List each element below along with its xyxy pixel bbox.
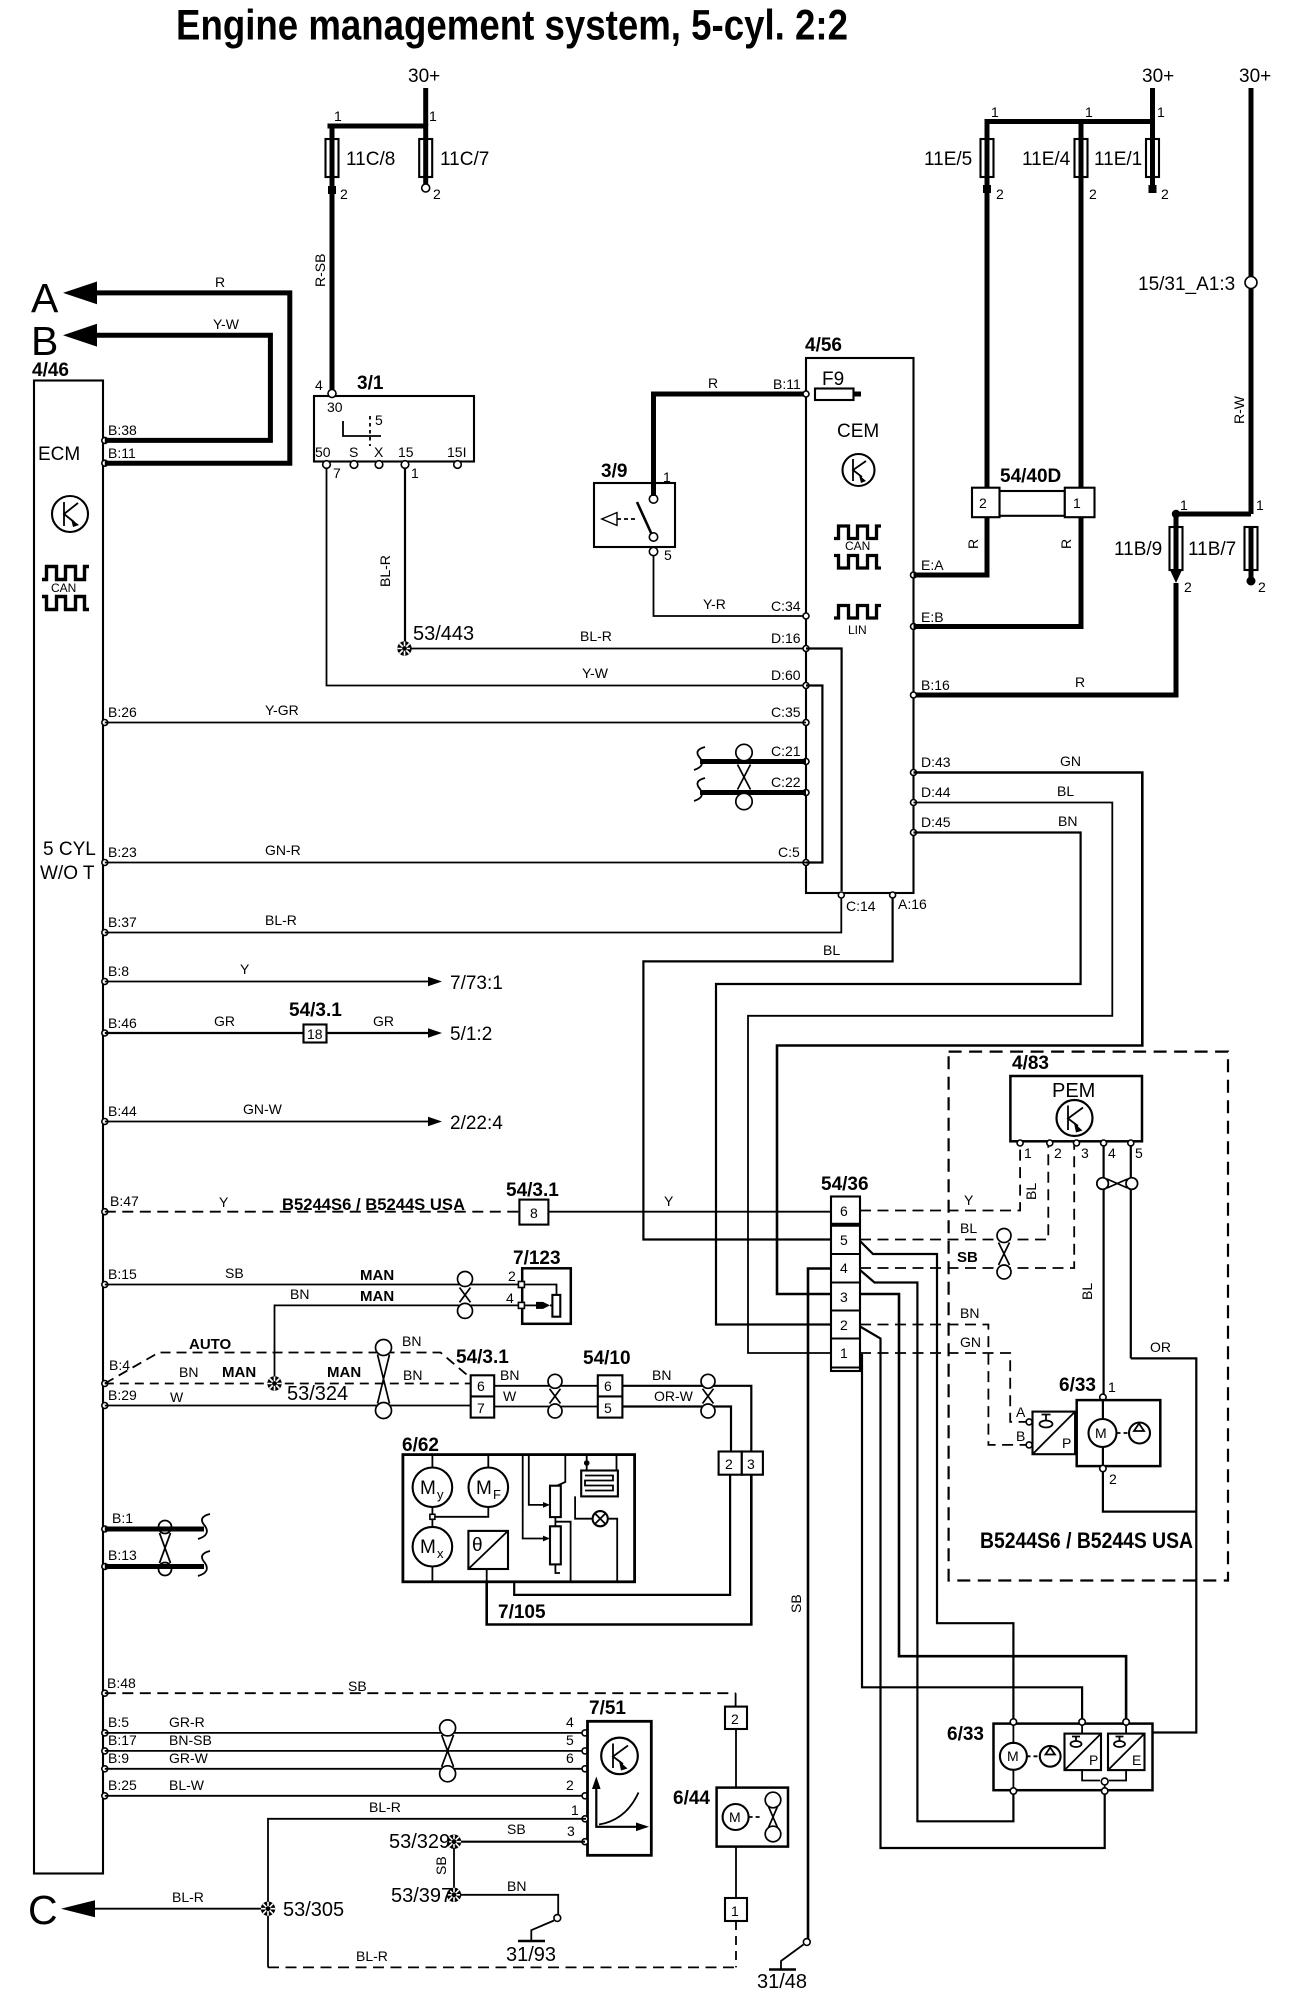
svg-text:4/56: 4/56	[805, 335, 842, 356]
twisted pair right of 54/10	[701, 1374, 715, 1418]
fuse 11E/5	[924, 139, 1004, 202]
svg-text:B5244S6 / B5244S USA: B5244S6 / B5244S USA	[980, 1528, 1193, 1553]
splice 53/397	[391, 1885, 461, 1907]
svg-text:B:9: B:9	[108, 1750, 129, 1766]
svg-text:53/443: 53/443	[413, 623, 474, 645]
power feed 30+ (left)	[330, 66, 440, 139]
svg-text:1: 1	[1157, 104, 1165, 120]
svg-text:7/105: 7/105	[498, 1602, 546, 1623]
svg-text:B:17: B:17	[108, 1732, 137, 1748]
wire R-SB from 11C/8 to 3/1 pin 4	[312, 190, 332, 392]
fuse F9	[708, 369, 861, 400]
svg-text:θ: θ	[472, 1535, 483, 1556]
svg-text:SB: SB	[507, 1821, 526, 1837]
radiator fan 6/44	[673, 1788, 788, 1847]
svg-text:PEM: PEM	[1052, 1080, 1095, 1102]
svg-text:53/397: 53/397	[391, 1885, 452, 1907]
svg-text:B:29: B:29	[108, 1387, 137, 1403]
wire C:22 stub with break	[694, 778, 806, 801]
power feed 30+ (right)	[1239, 66, 1271, 277]
wire BN from 7/123 pin 4 to splice 53/324	[275, 1286, 519, 1378]
svg-text:MAN: MAN	[360, 1267, 394, 1284]
pressure sensor with pin A/B (6/33)	[1016, 1404, 1075, 1454]
svg-text:1: 1	[411, 465, 419, 481]
svg-text:CEM: CEM	[837, 421, 879, 442]
twisted pair between 54/3.1 and 54/10	[548, 1374, 562, 1418]
svg-text:BL: BL	[823, 942, 840, 958]
svg-text:7/123: 7/123	[513, 1248, 561, 1269]
pump module 6/33 (upper, in-tank)	[1059, 1375, 1160, 1487]
fuse 11E/4	[1022, 122, 1097, 203]
svg-text:E: E	[1132, 1752, 1141, 1768]
CEM CAN symbol	[834, 526, 881, 568]
svg-text:53/305: 53/305	[283, 1899, 344, 1921]
wire SB between splices	[433, 1848, 454, 1889]
svg-text:3: 3	[840, 1289, 848, 1305]
svg-text:2: 2	[566, 1777, 574, 1793]
svg-text:MAN: MAN	[222, 1364, 256, 1381]
svg-text:C:22: C:22	[771, 774, 801, 790]
wire 6/33 pin 2 loop to OR wire	[1103, 1471, 1196, 1512]
splice 53/305	[261, 1899, 344, 1921]
dashed wire Y from 54/36 pin 6 to PEM pin 1	[860, 1145, 1020, 1211]
svg-text:53/329: 53/329	[389, 1831, 450, 1853]
connector pins 2 and 3	[719, 1452, 763, 1475]
dashed wire GN from 54/36 pin 1 to 6/33 pin A	[860, 1334, 1026, 1422]
ECM pin B:46 wire GR through 54/3.1 pin 18 to 5/1:2	[102, 1000, 492, 1045]
svg-text:B:47: B:47	[110, 1193, 139, 1209]
svg-text:1: 1	[1180, 497, 1188, 513]
svg-text:GN: GN	[1060, 753, 1081, 769]
svg-text:C:34: C:34	[771, 598, 801, 614]
svg-text:BL-R: BL-R	[265, 912, 297, 928]
svg-text:1: 1	[840, 1345, 848, 1361]
wire C:21 stub with break	[694, 747, 806, 770]
svg-text:2: 2	[725, 1456, 733, 1472]
dashed variant box B5244S6 (upper)	[949, 1052, 1228, 1581]
fuse 11C/8	[326, 126, 396, 202]
ECM pin B:1 stub with break	[102, 1510, 210, 1539]
instrument module 7/51	[588, 1698, 652, 1855]
svg-text:B:11: B:11	[108, 445, 136, 461]
svg-text:2: 2	[433, 186, 441, 202]
svg-text:BN: BN	[960, 1305, 979, 1321]
svg-text:54/40D: 54/40D	[1000, 466, 1061, 487]
svg-text:F: F	[493, 1487, 501, 1502]
svg-text:Y: Y	[964, 1192, 974, 1208]
CEM pin E:A	[911, 557, 945, 578]
svg-text:4/83: 4/83	[1012, 1053, 1049, 1074]
svg-text:GN-R: GN-R	[265, 842, 301, 858]
svg-text:30+: 30+	[1239, 66, 1271, 87]
wire BL from D:44 to 54/36 pin 1	[748, 783, 1112, 1353]
svg-text:2: 2	[979, 495, 987, 511]
ignition switch 3/1	[314, 373, 474, 481]
wire R from 11B/9 to CEM B:16	[914, 583, 1177, 695]
svg-text:1: 1	[663, 469, 671, 485]
svg-text:BN: BN	[402, 1333, 421, 1349]
svg-text:54/36: 54/36	[821, 1174, 869, 1195]
svg-text:1: 1	[731, 1903, 739, 1919]
svg-text:F9: F9	[822, 369, 844, 390]
ECM CAN symbol	[42, 567, 89, 610]
svg-text:3/1: 3/1	[357, 373, 384, 394]
ECM pin B:47 dashed wire Y to 54/3.1 pin 8	[102, 1180, 559, 1225]
ECM pin B:8 wire Y to 7/73:1	[102, 961, 503, 994]
svg-text:15/31_A1:3: 15/31_A1:3	[1138, 274, 1235, 295]
lamp	[575, 1496, 617, 1581]
svg-text:MAN: MAN	[360, 1288, 394, 1305]
svg-text:4: 4	[566, 1714, 574, 1730]
svg-text:2: 2	[1258, 579, 1266, 595]
svg-text:A: A	[31, 275, 59, 321]
svg-text:BL-R: BL-R	[356, 1948, 388, 1964]
svg-text:y: y	[437, 1487, 444, 1502]
wire CEM internal D:60 to C:5	[806, 686, 822, 863]
ECM pin B:26 wire Y-GR to C:35	[102, 702, 806, 726]
svg-text:GN: GN	[960, 1334, 981, 1350]
pressure sensor P (lower 6/33)	[1065, 1725, 1102, 1781]
wire Y-R 3/9 pin 5 to CEM C:34	[654, 555, 807, 616]
fuel pump/sender unit 6/62	[402, 1435, 635, 1582]
svg-text:1: 1	[1108, 1379, 1116, 1395]
svg-text:GR: GR	[214, 1013, 235, 1029]
svg-text:30+: 30+	[1142, 66, 1174, 87]
svg-text:2: 2	[1089, 186, 1097, 202]
CEM pin D:16	[771, 630, 809, 652]
svg-text:CAN: CAN	[845, 539, 870, 553]
pump assembly 6/33 (lower)	[947, 1719, 1153, 1794]
svg-text:3: 3	[747, 1456, 755, 1472]
svg-text:B5244S6 / B5244S USA: B5244S6 / B5244S USA	[282, 1195, 465, 1214]
dashed wire BL-R bottom	[268, 1948, 736, 1967]
svg-text:M: M	[729, 1809, 741, 1825]
svg-text:C:5: C:5	[778, 844, 800, 860]
CEM pin C:14	[838, 892, 875, 914]
svg-text:5: 5	[375, 412, 383, 428]
wires 6/62 to 7/105 label leader	[486, 1569, 488, 1582]
CEM pin D:44	[911, 784, 951, 806]
svg-text:D:16: D:16	[771, 630, 801, 646]
svg-text:A: A	[1016, 1404, 1026, 1420]
twisted pair before 7/123	[458, 1272, 473, 1319]
svg-text:Y-W: Y-W	[213, 316, 240, 332]
CEM pin D:43	[911, 754, 951, 776]
svg-text:SB: SB	[957, 1249, 978, 1266]
connector 54/36	[821, 1174, 869, 1371]
svg-text:30: 30	[327, 399, 343, 415]
svg-text:C:35: C:35	[771, 704, 801, 720]
svg-text:D:60: D:60	[771, 667, 801, 683]
twisted pair C:21/C:22	[736, 744, 752, 809]
svg-text:1: 1	[1085, 104, 1093, 120]
svg-text:4: 4	[506, 1290, 514, 1306]
wire thick from 54/36 pin 3 to lower 6/33 E	[860, 1294, 1126, 1719]
svg-text:4: 4	[315, 377, 323, 393]
svg-text:BL: BL	[960, 1220, 977, 1236]
heater element	[581, 1455, 618, 1497]
wire from PEM pin 5 down	[1130, 1145, 1132, 1358]
CEM LIN symbol	[834, 606, 881, 638]
svg-text:5: 5	[664, 547, 672, 563]
wire E:A to 11E/5	[914, 193, 988, 575]
wire bus to fuses 11C	[330, 126, 426, 139]
svg-text:54/3.1: 54/3.1	[506, 1180, 559, 1201]
svg-text:54/3.1: 54/3.1	[289, 1000, 342, 1021]
ground switch 31/93	[506, 1915, 561, 1966]
CEM key symbol	[843, 454, 875, 486]
svg-text:6: 6	[840, 1203, 848, 1219]
ECM pin B:25 wire BL-W to 7/51 pin 2	[102, 1777, 588, 1799]
svg-text:B:16: B:16	[921, 677, 950, 693]
arrow B	[31, 318, 97, 364]
svg-text:5: 5	[840, 1232, 848, 1248]
svg-text:BN: BN	[290, 1286, 309, 1302]
wire bus 11E	[987, 122, 1153, 140]
svg-text:GR-R: GR-R	[169, 1714, 205, 1730]
svg-text:BL: BL	[1023, 1183, 1039, 1200]
svg-text:B:44: B:44	[108, 1103, 137, 1119]
motor MF	[469, 1455, 509, 1508]
ECM pin B:23 wire GN-R to C:5	[102, 842, 806, 866]
wire BL-R splice to CEM D:16	[410, 628, 806, 649]
motor Mx	[413, 1527, 453, 1567]
svg-text:E:B: E:B	[921, 609, 944, 625]
ECM pin B:48 dashed wire SB to 6/44	[102, 1675, 736, 1707]
svg-text:R-SB: R-SB	[312, 254, 328, 287]
connector pin 2 above 6/44	[725, 1707, 747, 1788]
svg-text:11B/7: 11B/7	[1188, 539, 1236, 560]
wire SB from splice 53/329 to 7/51 pin 3	[460, 1821, 588, 1845]
svg-text:Engine management system, 5-cy: Engine management system, 5-cyl. 2:2	[176, 2, 848, 50]
svg-text:3: 3	[1081, 1145, 1089, 1161]
wire from 54/36 pin 1 to lower 6/33 P	[862, 1354, 1082, 1719]
CEM pin C:35	[771, 704, 809, 726]
svg-text:P: P	[1089, 1752, 1098, 1768]
arrow A	[31, 275, 97, 321]
splice 53/329	[389, 1831, 461, 1853]
svg-text:53/324: 53/324	[287, 1383, 348, 1405]
svg-text:B:11: B:11	[773, 376, 801, 392]
svg-text:BL-R: BL-R	[377, 555, 393, 587]
CEM box 4/56	[805, 335, 914, 893]
svg-text:B:15: B:15	[108, 1266, 137, 1282]
svg-text:R: R	[1075, 674, 1085, 690]
fuse 11C/7	[419, 139, 489, 202]
svg-text:2: 2	[1054, 1145, 1062, 1161]
svg-text:SB: SB	[788, 1594, 804, 1613]
level sender rheostat 1	[529, 1455, 566, 1518]
svg-text:5: 5	[566, 1732, 574, 1748]
svg-text:P: P	[1062, 1435, 1071, 1451]
svg-text:B:25: B:25	[108, 1777, 137, 1793]
svg-text:7/51: 7/51	[589, 1698, 626, 1719]
wire BN 54/3.1 to 54/10	[494, 1367, 598, 1386]
svg-text:3: 3	[567, 1823, 575, 1839]
wire SB thick from 54/36 pin 4 down to ground 31/48	[788, 1269, 831, 1940]
svg-text:1: 1	[429, 108, 437, 124]
svg-text:2: 2	[340, 186, 348, 202]
CEM pin C:22	[771, 774, 809, 796]
svg-text:E:A: E:A	[921, 557, 944, 573]
svg-text:BN: BN	[179, 1364, 198, 1380]
ECM pin B:5 wire GR-R to 7/51 pin 4	[102, 1714, 588, 1736]
wire GN from D:43 to 54/36 pin 3	[777, 753, 1142, 1294]
wires My-Mx junction	[430, 1507, 488, 1582]
svg-text:11E/1: 11E/1	[1094, 149, 1142, 170]
svg-text:4: 4	[840, 1260, 848, 1276]
wire from 54/36 pin 2 to lower 6/33 P/E common (diagonal tap)	[860, 1327, 1105, 1849]
svg-text:x: x	[437, 1546, 444, 1561]
svg-text:B:23: B:23	[108, 844, 137, 860]
svg-text:B: B	[31, 318, 58, 364]
svg-text:18: 18	[307, 1026, 323, 1042]
svg-text:7: 7	[477, 1400, 485, 1416]
svg-text:M: M	[476, 1478, 492, 1499]
svg-text:2: 2	[731, 1711, 739, 1727]
wire R CEM B:11 to 3/9 pin 1	[654, 394, 807, 496]
svg-text:OR-W: OR-W	[654, 1388, 694, 1404]
wire BL from A:16 to 54/36 pin 5	[643, 898, 892, 1240]
svg-text:2: 2	[1109, 1471, 1117, 1487]
wire E:B to 11E/4	[914, 189, 1082, 627]
wire W 54/3.1 to 54/10	[494, 1388, 598, 1407]
svg-text:6/33: 6/33	[1059, 1375, 1096, 1396]
level sender rheostat 2	[523, 1455, 571, 1582]
svg-text:BN: BN	[507, 1878, 526, 1894]
splice 53/443	[397, 623, 474, 656]
svg-text:R-W: R-W	[1231, 395, 1247, 424]
svg-text:GN-W: GN-W	[243, 1101, 283, 1117]
fuse 11B/7	[1188, 527, 1266, 595]
svg-text:B:8: B:8	[108, 963, 129, 979]
motor My	[413, 1455, 453, 1508]
svg-text:6/44: 6/44	[673, 1788, 710, 1809]
dashed wire BL from 54/36 pin 5 to PEM pin 2	[860, 1145, 1048, 1240]
dashed wire BN from 54/36 pin 2 to 6/33 pin B	[860, 1305, 1026, 1445]
svg-text:8: 8	[530, 1205, 538, 1221]
svg-text:5: 5	[604, 1400, 612, 1416]
svg-text:LIN: LIN	[848, 623, 867, 637]
ECM pin B:13 stub with break	[102, 1547, 210, 1576]
svg-text:Y: Y	[240, 961, 250, 977]
svg-text:15I: 15I	[447, 444, 466, 460]
ECM pin B:37 wire BL-R to C:14	[102, 898, 842, 936]
svg-text:GR: GR	[373, 1013, 394, 1029]
svg-text:B:5: B:5	[108, 1714, 129, 1730]
wire Y-W to arrow B from ECM B:38	[95, 316, 270, 443]
svg-text:D:45: D:45	[921, 814, 951, 830]
svg-text:D:43: D:43	[921, 754, 951, 770]
svg-text:Y-GR: Y-GR	[265, 702, 299, 718]
wire Y-W from 3/1 pin 50 to CEM D:60	[327, 468, 807, 686]
svg-text:BN-SB: BN-SB	[169, 1732, 212, 1748]
svg-text:OR: OR	[1150, 1339, 1171, 1355]
twisted pair on PEM pins 4/5 wires	[1097, 1178, 1138, 1190]
wire R-W down to 11B bus	[1231, 289, 1251, 515]
twisted pair B:1/B:13	[159, 1521, 172, 1576]
fuse 11B/9	[1114, 527, 1192, 595]
svg-text:BN: BN	[500, 1367, 519, 1383]
PEM module 4/83	[1010, 1053, 1143, 1161]
svg-text:M: M	[1095, 1425, 1107, 1441]
wire CEM internal D:16 to C:14	[806, 649, 842, 892]
svg-text:R: R	[215, 274, 225, 290]
svg-text:S: S	[349, 444, 358, 460]
wire BN connector 3 down to 7/105	[487, 1475, 752, 1625]
svg-text:6: 6	[566, 1750, 574, 1766]
wire BL from PEM pin 4 to 6/33 pin 1	[1079, 1145, 1104, 1394]
ECM pin B:9 wire GR-W to 7/51 pin 6	[102, 1750, 588, 1772]
CEM pin A:16	[890, 892, 927, 912]
svg-text:54/3.1: 54/3.1	[456, 1347, 509, 1368]
wire bus 11B	[1172, 497, 1264, 527]
svg-text:D:44: D:44	[921, 784, 951, 800]
wire BN from 53/397 to switch 31/93	[460, 1878, 558, 1915]
wire BN from D:45 to 54/36 pin 2	[716, 813, 1081, 1325]
connector 54/3.1 (rows 6/7)	[456, 1347, 509, 1418]
svg-text:1: 1	[334, 108, 342, 124]
svg-text:B:46: B:46	[108, 1015, 137, 1031]
svg-text:C:21: C:21	[771, 743, 801, 759]
ECM box 4/46	[32, 360, 103, 1874]
connector 54/40D	[972, 466, 1095, 517]
CEM pin C:21	[771, 743, 809, 765]
svg-text:1: 1	[1073, 495, 1081, 511]
svg-text:1: 1	[571, 1802, 579, 1818]
svg-text:15: 15	[398, 444, 414, 460]
svg-text:A:16: A:16	[898, 896, 927, 912]
svg-text:Y: Y	[664, 1193, 674, 1209]
wire OR-W 54/10 to connector 2	[622, 1388, 731, 1452]
svg-text:50: 50	[315, 444, 331, 460]
svg-text:BL-R: BL-R	[172, 1889, 204, 1905]
wire BL-R from 3/1 pin 15 to splice	[377, 468, 405, 643]
svg-text:C: C	[28, 1887, 58, 1933]
switch 3/9	[594, 461, 675, 563]
svg-text:W/O T: W/O T	[40, 863, 95, 884]
wire OR-W connector 2 down to 6/62 temp sensor	[487, 1475, 731, 1595]
pressure switch 7/123	[506, 1248, 571, 1324]
svg-text:2: 2	[1184, 579, 1192, 595]
ECM pin B:29 wire W to 54/3.1 pin 7	[102, 1387, 471, 1409]
svg-text:2: 2	[840, 1317, 848, 1333]
level sensor E (lower 6/33)	[1101, 1725, 1144, 1788]
svg-text:CAN: CAN	[51, 581, 76, 595]
power feed 30+ (middle)	[987, 66, 1174, 139]
svg-text:BN: BN	[1058, 813, 1077, 829]
wire OR from PEM pin 5 to lower 6/33	[1131, 1339, 1197, 1733]
svg-text:M: M	[420, 1478, 436, 1499]
ground switch 31/48	[757, 1939, 810, 1993]
twisted pair on BL/SB dashed	[997, 1229, 1011, 1280]
connector 54/10 (rows 6/5)	[583, 1348, 631, 1418]
svg-text:11C/7: 11C/7	[440, 149, 489, 170]
svg-text:R: R	[708, 375, 718, 391]
ECM pin B:17 wire BN-SB to 7/51 pin 5	[102, 1732, 588, 1754]
svg-text:B: B	[1016, 1428, 1025, 1444]
svg-text:SB: SB	[225, 1265, 244, 1281]
svg-text:W: W	[503, 1388, 517, 1404]
svg-text:B:1: B:1	[112, 1510, 133, 1526]
svg-text:W: W	[170, 1389, 184, 1405]
CEM pin B:16	[911, 677, 951, 698]
svg-text:X: X	[374, 444, 384, 460]
svg-text:7: 7	[333, 465, 341, 481]
wire BL-R from 7/51 pin 1 to 53/305	[268, 1799, 588, 1967]
dashed wire SB from 54/36 pin 4 to PEM pin 3	[860, 1145, 1074, 1268]
svg-text:2: 2	[1161, 186, 1169, 202]
